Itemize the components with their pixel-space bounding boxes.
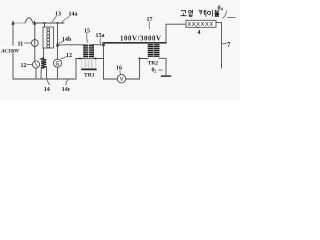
svg-text:100V/3000V: 100V/3000V [120,36,161,43]
svg-text:16: 16 [116,66,122,72]
wire faint top segment [14,22,26,24]
wire left side of primary loop [103,43,105,79]
svg-text:AC100V: AC100V [0,49,21,55]
cable hatch marks [188,22,213,25]
wire left rail AC input [12,23,14,79]
wiper line 13 [57,23,59,59]
transformer TR2 winding right [155,45,159,56]
svg-text:7: 7 [227,42,231,49]
wire G to rail [57,67,59,79]
wire vertical through meter 11 [34,25,36,62]
leader 14b [59,41,64,43]
electrode bar O2 [162,75,171,77]
svg-text:17: 17 [147,17,153,23]
label Korean: 고압 케이블 [181,10,219,16]
wire TR1 right top lead [93,44,103,46]
leader 12 right [61,57,67,59]
wire riser to TR1 bottom [76,59,104,80]
arrow input terminal 1 [11,20,14,25]
wire crossing hump [25,18,33,23]
node dot TR1 bottom a [79,58,81,60]
wire stub meter12 to rail [35,68,37,79]
transformer TR1 winding left [84,45,94,56]
regulator winding dots [47,28,50,47]
svg-text:14c: 14c [62,87,71,93]
wire rheostat right lead [45,66,47,79]
wire TR2 secondary bottom to ground electrode [159,58,166,75]
svg-text:02: 02 [152,67,157,73]
wire secondary output riser [165,24,167,42]
svg-text:14: 14 [44,87,50,93]
leader O2 [159,69,163,71]
wire secondary output top run [166,23,186,25]
TR1 ghost lower [85,59,91,68]
leader 14a [62,17,70,23]
svg-text:12: 12 [66,53,72,59]
svg-text:14a: 14a [69,12,78,18]
wire A wiper to TR1 [59,44,85,46]
wire bottom of primary loop [104,78,140,80]
node dot TR1 bottom b [95,58,97,60]
svg-text:TR2: TR2 [148,61,159,67]
generator circle G [54,59,62,67]
wire primary top thick B [103,42,166,44]
leader 11 [25,42,32,44]
wire rheostat left lead [40,68,42,79]
transformer TR1 winding right / core gap [88,44,90,57]
wire TR2 primary bottom lead [140,58,149,60]
TR2 winding top stubs [150,43,156,45]
svg-text:15: 15 [84,29,90,35]
leader 16 [119,70,122,74]
wire right side riser [139,59,141,80]
wire bottom-left rail [13,78,76,80]
slide regulator 13 body [43,27,54,48]
svg-text:13: 13 [55,12,61,18]
node dot TR1 lead / riser [102,44,105,47]
arrow input terminal 2 [33,20,36,25]
leader cable dash [228,16,236,18]
leader 13 [52,17,56,23]
leader 12 left [27,64,32,66]
leader 17 [148,22,151,29]
leader 15a [99,38,101,44]
TR2 core lines [152,44,155,57]
node dot top wire A [43,22,45,24]
TR1 winding side rails [84,45,93,58]
wire regulator bottom to rheostat [43,48,45,58]
svg-text:15a: 15a [96,33,105,39]
leader 14 [47,80,49,85]
leader 4 [196,27,199,28]
meter circle 12 [32,61,39,68]
voltmeter 16 [117,75,125,83]
svg-text:4: 4 [197,29,201,36]
wire top horizontal [35,22,65,24]
svg-text:TR1: TR1 [84,72,95,78]
wire cable to rod 7 [216,23,222,68]
transformer TR2 winding left [148,45,152,56]
leader 14c [66,79,68,85]
TR1 core bar [82,68,96,70]
svg-text:14b: 14b [62,37,72,43]
node dot top wire B [56,22,58,24]
svg-text:12: 12 [21,63,27,69]
node dot TR2 primary bottom [138,57,140,59]
HV cable box [186,20,216,27]
rheostat 14 zigzag [41,58,46,68]
label AC100V [1,46,22,53]
wire stub into regulator top [44,23,46,27]
leader O4 [223,11,227,19]
wiper arrow [56,42,59,47]
leader 15 [86,33,89,42]
meter circle 11 [31,40,38,47]
leader 7 [222,43,226,45]
